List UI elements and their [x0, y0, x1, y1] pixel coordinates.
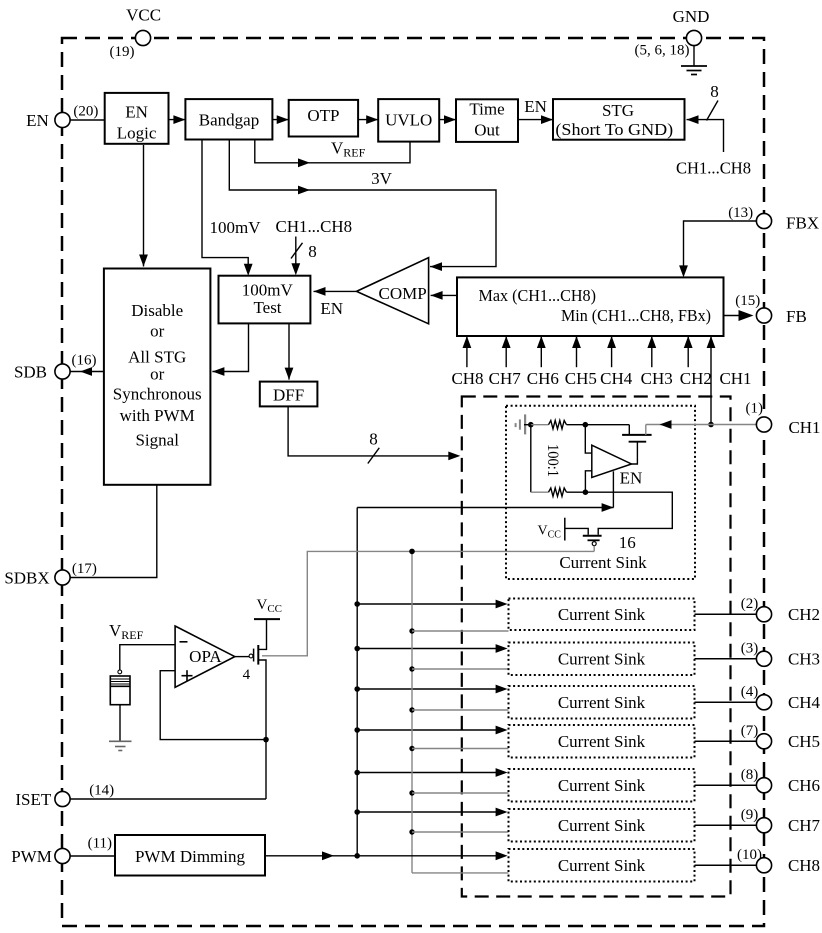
block STG (Short To GND)	[553, 99, 685, 140]
current sink block CH7	[509, 809, 695, 842]
svg-text:CH5: CH5	[788, 732, 820, 751]
svg-text:Current Sink: Current Sink	[558, 693, 646, 712]
chassis ground symbol	[524, 414, 526, 434]
arrowhead FBX into MaxMin	[679, 265, 688, 277]
block 100mV Test	[219, 276, 311, 324]
pin FB	[756, 308, 771, 323]
ground symbol GND pin	[693, 45, 695, 66]
op-amp OPA	[175, 626, 235, 687]
wire arrow MaxMin to COMP lower input	[431, 294, 457, 296]
svg-text:8: 8	[369, 430, 378, 449]
wire 100mV Bandgap to 100mV Test	[202, 140, 248, 274]
svg-text:4: 4	[243, 667, 251, 683]
svg-text:(Short To GND): (Short To GND)	[555, 120, 673, 139]
bus slash on DFF bus	[368, 448, 380, 464]
sink FET bulk bar	[588, 539, 600, 541]
svg-text:SDBX: SDBX	[4, 569, 49, 588]
wire arrow COMP to Test	[314, 290, 357, 292]
wire arrow Test to Disable	[212, 324, 248, 372]
svg-text:COMP: COMP	[379, 284, 427, 303]
wire gate drive main gray	[262, 551, 594, 655]
svg-text:CH1: CH1	[719, 369, 751, 388]
pin ISET	[55, 791, 70, 806]
wire Disable to SDBX pin	[69, 485, 157, 578]
svg-text:OTP: OTP	[307, 106, 339, 125]
svg-text:CH7: CH7	[788, 816, 821, 835]
wire lower rail left	[531, 491, 549, 493]
svg-text:3V: 3V	[371, 169, 393, 188]
svg-text:Min (CH1...CH8, FBx): Min (CH1...CH8, FBx)	[561, 306, 711, 325]
junction enable tap	[354, 601, 360, 607]
wire CH2 sink to pin	[695, 613, 758, 615]
OPA minus sign	[180, 641, 188, 643]
wire arrow enable into current sink	[357, 603, 496, 605]
svg-text:CH8: CH8	[788, 856, 820, 875]
wire sense amp lower input	[585, 471, 591, 492]
svg-text:EN: EN	[125, 103, 148, 122]
svg-text:100:1: 100:1	[544, 444, 561, 477]
wire gate drive into current sink	[412, 630, 509, 632]
pin VCC	[135, 30, 150, 45]
pin EN	[55, 112, 70, 127]
wire CH1 pin to output FET	[646, 424, 757, 426]
svg-text:CH6: CH6	[527, 369, 559, 388]
svg-text:(16): (16)	[72, 353, 97, 369]
svg-text:Time: Time	[469, 99, 504, 118]
wire arrow enable into current sink	[357, 688, 496, 690]
wire gate drive into current sink	[412, 668, 509, 670]
wire channel sense stub into MaxMin	[611, 336, 613, 367]
wire arrow enable into current sink	[357, 772, 496, 774]
wire MaxMin to FB pin	[724, 315, 743, 317]
svg-text:Current Sink: Current Sink	[558, 776, 646, 795]
svg-text:STG: STG	[602, 101, 634, 120]
wire ground stub	[524, 424, 529, 426]
wire gate drive into current sink	[412, 831, 509, 833]
wire gate drive into current sink	[412, 792, 509, 794]
svg-text:(19): (19)	[110, 44, 135, 60]
pin circle CH8	[756, 858, 771, 873]
pin circle CH5	[756, 734, 771, 749]
svg-text:CH4: CH4	[788, 693, 821, 712]
svg-text:EN: EN	[26, 111, 49, 130]
wire channel sense stub into MaxMin	[505, 336, 507, 367]
wire arrow enable into current sink	[357, 648, 496, 650]
PFET 4 gate bar	[253, 649, 255, 662]
svg-text:100mV: 100mV	[210, 218, 262, 237]
pin FBX	[756, 213, 771, 228]
svg-text:OPA: OPA	[189, 647, 222, 666]
pin SDBX	[55, 570, 70, 585]
wire EN pin to EN Logic	[70, 119, 105, 121]
svg-text:CH8: CH8	[451, 369, 483, 388]
wire arrow Test to DFF	[288, 324, 290, 380]
wire gray rail stub	[531, 424, 549, 426]
svg-text:(4): (4)	[741, 684, 759, 700]
svg-text:Signal: Signal	[135, 431, 179, 450]
wire sense amp output to gate	[632, 442, 638, 464]
svg-text:or: or	[150, 322, 165, 341]
block OTP	[289, 100, 358, 137]
OPA plus sign	[182, 675, 193, 677]
svg-text:(7): (7)	[741, 723, 759, 739]
block Bandgap	[185, 99, 272, 139]
wire CH5 sink to pin	[695, 740, 758, 742]
pin GND	[686, 30, 701, 45]
current sink detail dotted box	[506, 406, 695, 579]
svg-text:SDB: SDB	[14, 363, 47, 382]
wire output FET source lead	[628, 425, 630, 435]
junction CH1 sense on CH1 wire	[708, 422, 714, 428]
wire gate drive vertical gray	[411, 551, 413, 873]
wire channel sense stub into MaxMin	[576, 336, 578, 367]
pin PWM	[55, 848, 70, 863]
svg-text:8: 8	[308, 242, 317, 261]
block PWM Dimming	[115, 835, 265, 876]
arrowhead 3V into COMP	[430, 262, 442, 271]
bus slash near Test	[291, 243, 303, 259]
wire sink FET left lead	[565, 528, 588, 534]
svg-text:Synchronous: Synchronous	[113, 385, 202, 404]
wire 3V Bandgap to COMP	[229, 140, 496, 267]
svg-text:FBX: FBX	[786, 214, 819, 233]
svg-text:FB: FB	[786, 307, 807, 326]
wire channel sense stub into MaxMin	[651, 336, 653, 367]
wire OPA plus feedback	[160, 671, 266, 740]
junction PWM line	[354, 853, 360, 859]
svg-text:(5, 6, 18): (5, 6, 18)	[635, 43, 690, 59]
svg-text:Logic: Logic	[117, 124, 157, 143]
junction gate tap	[409, 666, 414, 671]
svg-text:Current Sink: Current Sink	[558, 732, 646, 751]
junction gate drive split	[409, 549, 415, 555]
svg-text:Current Sink: Current Sink	[558, 605, 646, 624]
wire gate drive into CH8 sink	[412, 872, 509, 874]
current sink block CH2	[509, 599, 695, 631]
wire CH6 sink to pin	[695, 784, 758, 786]
svg-text:with PWM: with PWM	[120, 406, 195, 425]
svg-text:CH3: CH3	[788, 649, 820, 668]
current-sink group dashed box	[462, 397, 731, 897]
svg-text:EN: EN	[620, 469, 643, 488]
block Max Min detector	[457, 277, 724, 336]
arrowhead bus into STG	[687, 115, 699, 124]
wire CH1..CH8 bus into STG	[687, 120, 724, 152]
svg-text:UVLO: UVLO	[385, 111, 432, 130]
junction gate tap	[409, 829, 414, 834]
current sink block CH3	[509, 643, 695, 676]
svg-text:EN: EN	[524, 97, 547, 116]
svg-text:(20): (20)	[73, 104, 98, 120]
svg-text:CH1: CH1	[788, 418, 820, 437]
junction gate tap	[409, 628, 414, 633]
svg-text:Disable: Disable	[131, 301, 183, 320]
svg-text:Current Sink: Current Sink	[558, 856, 646, 875]
wire gate drive into current sink	[412, 709, 509, 711]
current sink block CH4	[509, 686, 695, 719]
ground symbol OPA	[109, 740, 132, 742]
sink FET channel bar	[583, 535, 602, 537]
wire arrow enable into current sink	[357, 729, 496, 731]
wire OPA output to PFET gate	[235, 656, 249, 658]
wire bulk to gate drive gray	[593, 546, 595, 552]
arrowhead 100mV into Test box	[244, 264, 253, 276]
svg-text:(11): (11)	[88, 836, 112, 852]
svg-text:CH1...CH8: CH1...CH8	[276, 217, 353, 236]
junction enable tap	[354, 727, 360, 733]
pin circle CH7	[756, 818, 771, 833]
resistor 100:1 upper	[549, 421, 567, 429]
wire enable bus vertical	[356, 508, 358, 856]
wire lower rail to node	[567, 491, 586, 493]
arrowhead CH1 current direction	[660, 420, 672, 429]
wire DFF 8-bus to sink group	[288, 406, 458, 456]
svg-text:or: or	[150, 365, 165, 384]
wire arrow Disable to SDB pin	[70, 371, 104, 373]
svg-text:100mV: 100mV	[242, 281, 294, 300]
pin circle CH3	[756, 651, 771, 666]
svg-text:(14): (14)	[89, 783, 114, 799]
svg-text:CH1...CH8: CH1...CH8	[676, 159, 751, 178]
pin SDB	[55, 364, 70, 379]
wire PWM pin to block	[69, 855, 115, 857]
arrowhead CH bus into Test box	[291, 263, 300, 275]
svg-text:(2): (2)	[741, 596, 759, 612]
wire CH7 sink to pin	[695, 824, 758, 826]
wire sense amp upper input	[585, 425, 592, 453]
svg-text:(15): (15)	[735, 293, 760, 309]
PFET gate bubble	[249, 654, 253, 658]
junction gate tap	[409, 790, 414, 795]
op-amp sense amplifier	[592, 445, 632, 477]
block Disable/All STG/Synchronous	[104, 269, 210, 485]
svg-text:CH5: CH5	[565, 369, 597, 388]
arrowhead on 3V wire	[298, 186, 310, 195]
svg-text:Out: Out	[474, 120, 500, 139]
output FET gate bar	[629, 441, 647, 443]
wire arrow enable into current sink	[357, 811, 496, 813]
junction enable tap	[354, 686, 360, 692]
svg-text:(9): (9)	[741, 807, 759, 823]
svg-text:CH6: CH6	[788, 776, 820, 795]
svg-text:CH2: CH2	[788, 605, 820, 624]
svg-text:PWM Dimming: PWM Dimming	[135, 847, 246, 866]
pin circle CH2	[756, 607, 771, 622]
reference resistor bubble	[118, 670, 122, 674]
svg-text:CH3: CH3	[641, 369, 673, 388]
wire left branch vertical	[530, 425, 532, 493]
wire EN into detail current sink	[357, 507, 613, 509]
svg-text:ISET: ISET	[15, 790, 52, 809]
reference resistor body	[110, 676, 130, 705]
wire output FET drain lead	[645, 425, 647, 435]
svg-text:Bandgap: Bandgap	[199, 111, 259, 130]
wire CH8 sink to pin	[695, 864, 758, 866]
svg-text:16: 16	[619, 533, 636, 552]
wire arrow OTP to UVLO	[358, 119, 378, 121]
block DFF	[260, 382, 318, 407]
svg-text:GND: GND	[673, 7, 710, 26]
block Time Out	[456, 99, 518, 142]
wire arrow UVLO to Time Out	[439, 119, 456, 121]
svg-text:Max (CH1...CH8): Max (CH1...CH8)	[479, 286, 597, 305]
wire EN into sense amp	[612, 471, 614, 507]
wire arrow EN Logic to Bandgap	[169, 119, 186, 121]
junction enable tap	[354, 809, 360, 815]
pin CH1	[756, 417, 771, 432]
wire channel sense stub into MaxMin	[466, 336, 468, 367]
block UVLO	[378, 99, 439, 142]
wire rail to sense node	[567, 424, 586, 426]
junction gate tap	[409, 707, 414, 712]
svg-text:8: 8	[710, 82, 719, 101]
wire CH4 sink to pin	[695, 701, 758, 703]
svg-text:CH4: CH4	[600, 369, 633, 388]
svg-text:(17): (17)	[72, 561, 97, 577]
wire arrow Bandgap to OTP	[272, 119, 288, 121]
comparator COMP	[357, 258, 429, 324]
svg-text:CH2: CH2	[680, 369, 712, 388]
wire arrow EN Logic to Disable	[143, 145, 145, 267]
svg-text:EN: EN	[320, 299, 343, 318]
wire VREF to OPA minus	[120, 645, 175, 670]
junction enable tap	[354, 646, 360, 652]
svg-text:Current Sink: Current Sink	[558, 649, 646, 668]
wire PFET drain to ISET	[258, 660, 266, 799]
svg-text:(1): (1)	[746, 401, 764, 417]
svg-text:Current Sink: Current Sink	[558, 816, 646, 835]
junction top-left node	[528, 422, 534, 428]
wire PFET source to VCC	[258, 619, 266, 649]
wire rail to output FET source	[585, 424, 629, 426]
svg-text:VCC: VCC	[126, 6, 161, 25]
wire arrow Time Out to STG	[518, 119, 553, 121]
pin circle CH6	[756, 778, 771, 793]
output FET channel bar	[622, 434, 652, 436]
svg-text:CH7: CH7	[489, 369, 522, 388]
wire resistor to ground	[119, 705, 121, 742]
resistor 100:1 lower	[549, 488, 567, 496]
VCC plate OPA FET	[254, 618, 280, 620]
wire gate drive into current sink	[412, 748, 509, 750]
junction gate tap	[409, 746, 414, 751]
wire channel sense stub into MaxMin	[540, 336, 542, 367]
current sink block CH6	[509, 769, 695, 802]
wire CH3 sink to pin	[695, 658, 758, 660]
junction lower sense node	[583, 489, 589, 495]
svg-text:(8): (8)	[741, 767, 759, 783]
wire PWM Dimming output	[265, 855, 496, 857]
wire lower rail to sink FET	[585, 492, 672, 535]
wire ISET pin	[69, 798, 266, 800]
sink FET bulk bubble	[592, 542, 596, 546]
wire channel sense stub into MaxMin	[687, 336, 689, 367]
PFET 4 channel bar	[257, 645, 259, 665]
svg-text:PWM: PWM	[11, 847, 52, 866]
svg-text:DFF: DFF	[273, 386, 304, 405]
svg-text:(13): (13)	[728, 205, 753, 221]
arrowhead PWM output	[322, 851, 334, 860]
wire FBX to MaxMin top	[684, 221, 758, 275]
junction enable tap	[354, 770, 360, 776]
wire CH bus into 100mV Test	[295, 237, 297, 274]
svg-text:Current Sink: Current Sink	[559, 553, 647, 572]
junction sense node	[583, 422, 589, 428]
sink FET gate plate	[564, 518, 566, 541]
block EN Logic	[105, 93, 169, 144]
wire VREF Bandgap to UVLO	[255, 140, 410, 163]
arrowhead on VREF wire	[298, 158, 310, 167]
svg-text:(3): (3)	[741, 640, 759, 656]
wire CH1 sense into MaxMin	[710, 336, 712, 425]
current sink block CH5	[509, 725, 695, 758]
junction feedback node	[263, 737, 269, 743]
current sink block CH8	[509, 849, 695, 882]
svg-text:Test: Test	[253, 298, 281, 317]
bus slash near STG	[707, 101, 719, 121]
pin circle CH4	[756, 695, 771, 710]
